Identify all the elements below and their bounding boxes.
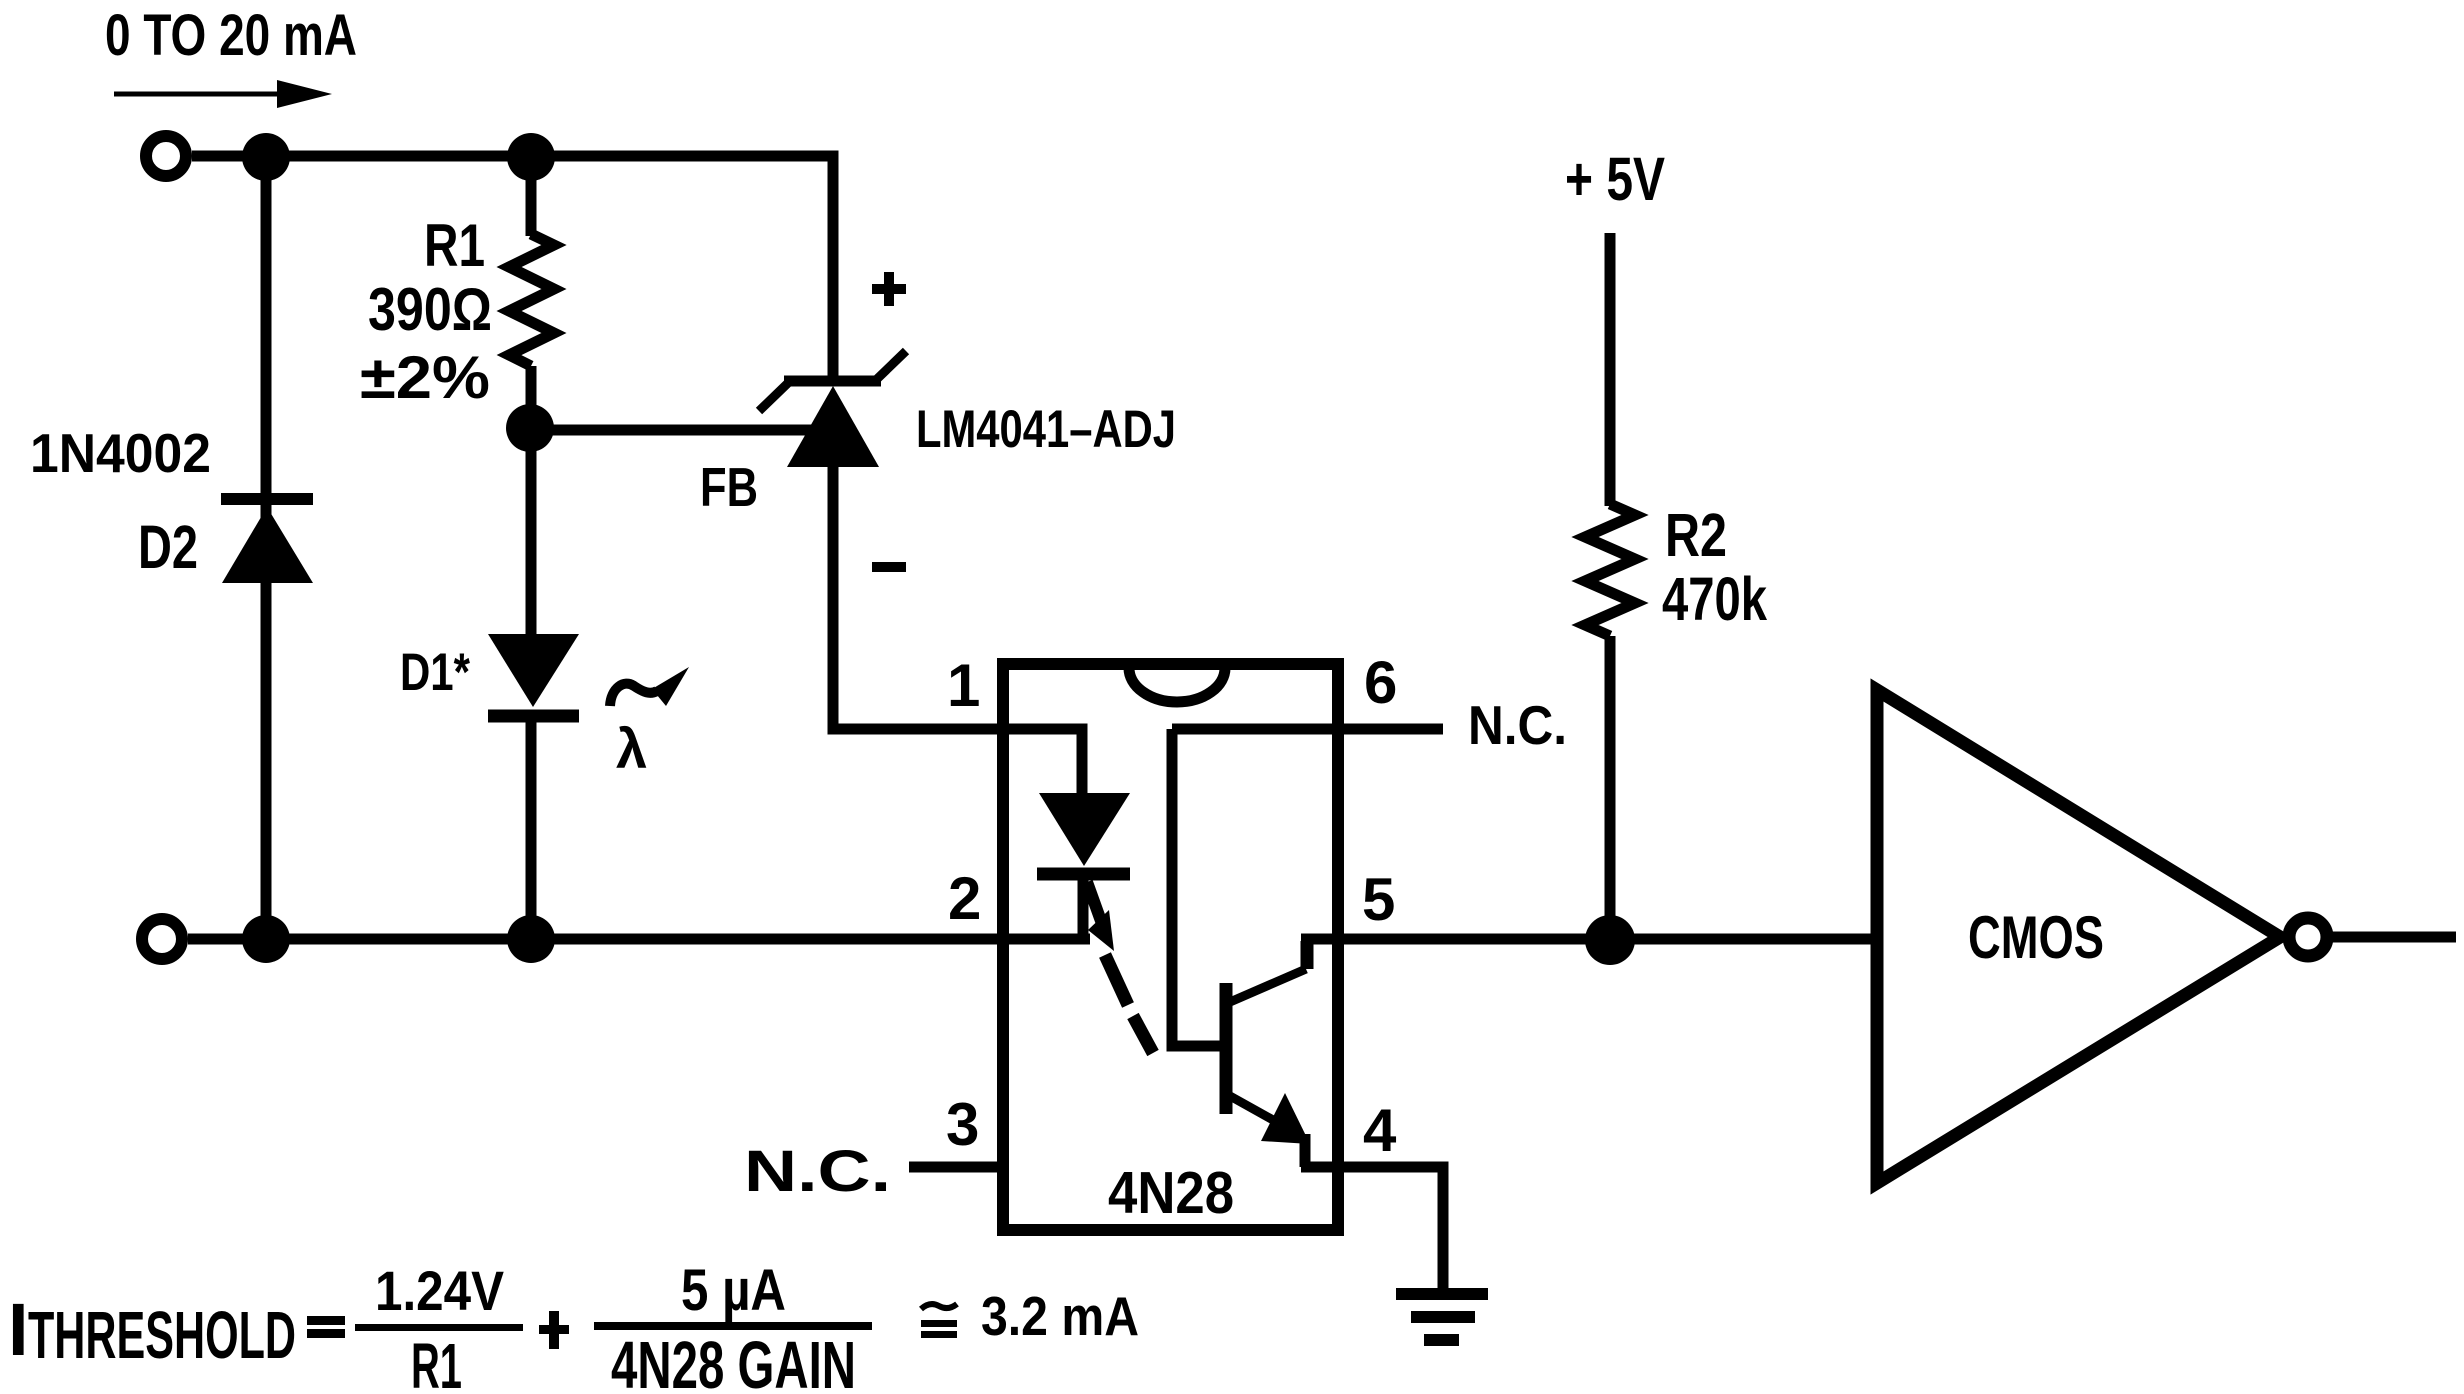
wire FB node down to D1 xyxy=(526,428,537,640)
svg-text:3.2 mA: 3.2 mA xyxy=(981,1285,1139,1347)
svg-text:3: 3 xyxy=(946,1091,979,1158)
node junction dot top D2 branch xyxy=(242,133,290,181)
svg-text:THRESHOLD: THRESHOLD xyxy=(28,1298,296,1373)
formula approx equal sign xyxy=(921,1304,957,1338)
wire +5V to R2 xyxy=(1605,233,1616,506)
label minus xyxy=(872,562,906,572)
wire CMOS output xyxy=(2332,932,2456,943)
diode D2 xyxy=(221,499,313,583)
photon arrow lambda squiggle xyxy=(610,667,689,706)
wire FB to LM4041 xyxy=(530,425,812,436)
svg-text:4N28: 4N28 xyxy=(1108,1160,1234,1226)
wire bottom rail xyxy=(188,934,1090,945)
svg-text:R1: R1 xyxy=(411,1330,462,1394)
svg-text:R2: R2 xyxy=(1665,501,1727,569)
wire pin 6 to N.C. xyxy=(1172,724,1443,735)
wire D1 cathode to bottom rail xyxy=(526,716,537,939)
wire R1 bottom lead xyxy=(526,366,537,430)
wire R1 top lead xyxy=(526,157,537,236)
formula equals sign xyxy=(307,1316,345,1338)
svg-text:+ 5V: + 5V xyxy=(1565,145,1665,213)
optocoupler U2 4N28 package xyxy=(1003,664,1338,1230)
svg-text:±2%: ±2% xyxy=(360,344,490,411)
input terminal top xyxy=(146,136,186,176)
svg-text:FB: FB xyxy=(700,456,758,518)
svg-text:4: 4 xyxy=(1363,1097,1397,1164)
input terminal bottom xyxy=(142,919,182,959)
ground xyxy=(1396,1288,1488,1346)
svg-text:R1: R1 xyxy=(424,212,485,279)
shunt reference U1 LM4041-ADJ xyxy=(759,351,906,467)
node junction dot top R1 branch xyxy=(507,133,555,181)
svg-text:5: 5 xyxy=(1362,866,1395,933)
wire LM4041 anode to opto pin 1 xyxy=(833,467,1082,793)
svg-text:N.C.: N.C. xyxy=(744,1139,891,1204)
CMOS buffer xyxy=(1877,690,2327,1183)
LED D1 xyxy=(488,634,579,716)
wire pin 5 to CMOS xyxy=(1301,934,1879,945)
wire top rail xyxy=(192,156,833,381)
current direction arrow xyxy=(114,80,332,108)
formula I THRESHOLD xyxy=(8,1288,296,1373)
wire opto base from pin 6 xyxy=(1172,729,1221,1046)
svg-text:2: 2 xyxy=(948,865,981,932)
svg-text:LM4041–ADJ: LM4041–ADJ xyxy=(916,400,1176,459)
svg-text:1: 1 xyxy=(947,652,980,719)
opto LED xyxy=(1037,793,1130,939)
resistor R1 xyxy=(509,234,554,366)
node junction dot bottom D2 xyxy=(242,915,290,963)
light transfer arrow dashed xyxy=(1087,882,1153,1053)
wire D2 branch vertical xyxy=(261,157,272,939)
opto transistor xyxy=(1226,941,1310,1167)
resistor R2 xyxy=(1585,504,1635,636)
svg-text:470k: 470k xyxy=(1662,565,1767,633)
svg-text:1N4002: 1N4002 xyxy=(30,422,211,484)
svg-text:1.24V: 1.24V xyxy=(375,1259,504,1322)
svg-text:I: I xyxy=(8,1288,29,1371)
formula fraction bar 2 xyxy=(594,1322,872,1330)
svg-text:CMOS: CMOS xyxy=(1968,904,2104,971)
svg-text:0 TO 20 mA: 0 TO 20 mA xyxy=(105,3,357,68)
svg-text:390Ω: 390Ω xyxy=(368,276,492,343)
svg-text:5 µA: 5 µA xyxy=(681,1258,786,1323)
svg-text:6: 6 xyxy=(1364,649,1397,716)
node junction dot FB node xyxy=(506,404,554,452)
formula fraction bar 1 xyxy=(355,1324,523,1331)
svg-text:4N28 GAIN: 4N28 GAIN xyxy=(611,1328,856,1394)
wire pin 3 N.C. stub xyxy=(909,1162,1009,1173)
node junction dot bottom D1 xyxy=(507,915,555,963)
node junction dot R2 xyxy=(1585,915,1635,965)
wire R2 to rail junction xyxy=(1605,636,1616,939)
svg-text:D1*: D1* xyxy=(400,643,470,702)
wire pin 4 to ground xyxy=(1301,1167,1443,1288)
label plus xyxy=(872,272,906,306)
svg-text:λ: λ xyxy=(616,717,647,780)
formula plus sign xyxy=(539,1311,569,1349)
svg-text:D2: D2 xyxy=(138,513,198,581)
svg-text:N.C.: N.C. xyxy=(1468,694,1567,756)
